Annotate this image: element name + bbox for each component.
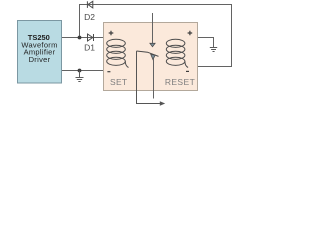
svg-text:D2: D2 xyxy=(84,12,95,22)
svg-text:Driver: Driver xyxy=(29,55,51,64)
svg-text:D1: D1 xyxy=(84,43,95,53)
svg-text:RESET: RESET xyxy=(165,77,195,87)
svg-text:SET: SET xyxy=(110,77,127,87)
